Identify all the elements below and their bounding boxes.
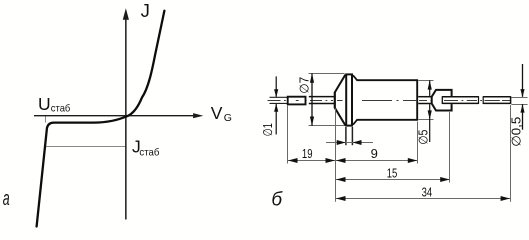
svg-text:U: U xyxy=(38,94,51,114)
svg-text:∅0,5: ∅0,5 xyxy=(510,117,524,147)
svg-text:∅5: ∅5 xyxy=(416,130,430,145)
svg-text:стаб: стаб xyxy=(139,146,159,158)
svg-text:15: 15 xyxy=(387,165,398,180)
svg-text:19: 19 xyxy=(302,146,313,161)
svg-text:∅1: ∅1 xyxy=(261,123,275,136)
svg-text:б: б xyxy=(271,190,283,211)
svg-text:∅7: ∅7 xyxy=(298,77,312,94)
svg-text:9: 9 xyxy=(371,146,378,161)
svg-text:V: V xyxy=(211,103,223,123)
svg-text:стаб: стаб xyxy=(51,102,71,114)
svg-text:34: 34 xyxy=(422,184,433,199)
svg-text:а: а xyxy=(3,187,10,210)
svg-text:G: G xyxy=(224,112,232,124)
svg-text:J: J xyxy=(141,0,150,21)
